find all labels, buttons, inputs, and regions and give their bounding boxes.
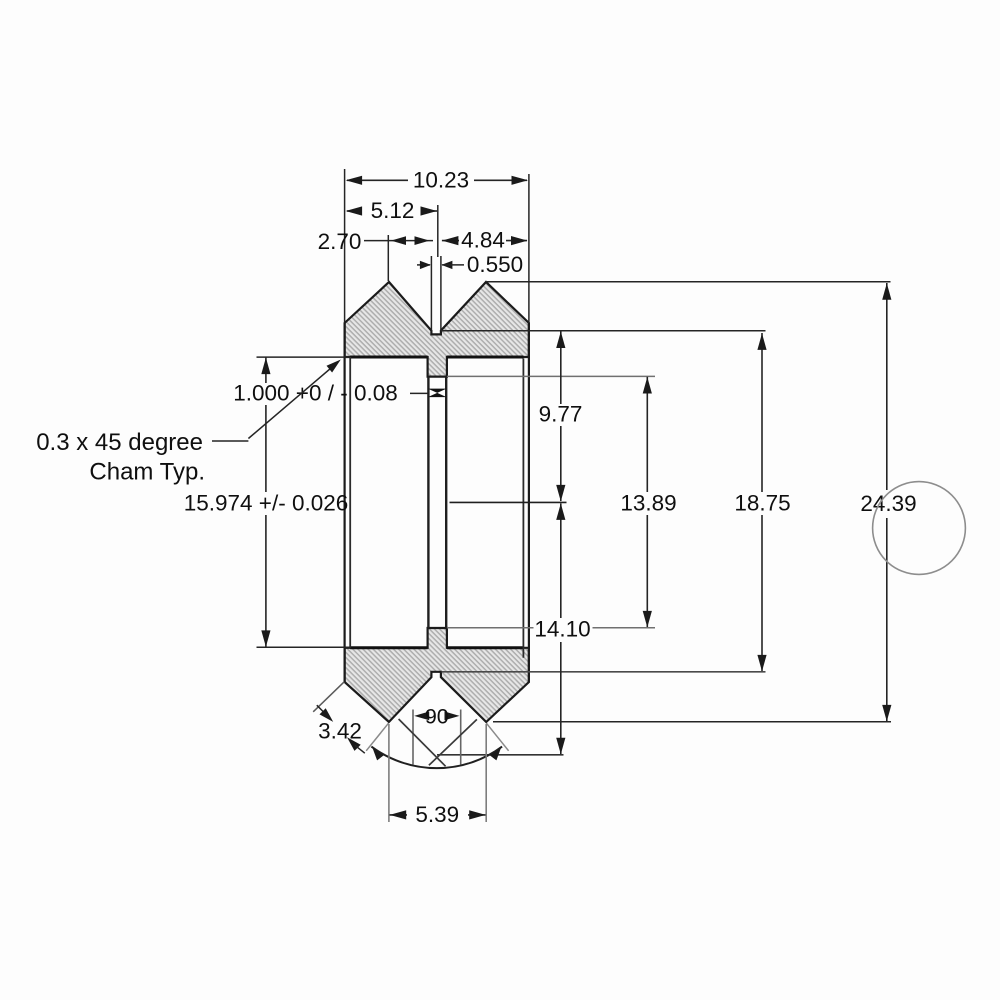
svg-text:Cham Typ.: Cham Typ. [89, 459, 205, 486]
construction line B [429, 719, 477, 765]
dim 10.23 line [346, 176, 528, 185]
svg-text:0.550: 0.550 [467, 252, 523, 277]
svg-text:10.23: 10.23 [413, 167, 469, 192]
dim 5.12 line [346, 206, 437, 215]
center line [450, 501, 567, 503]
chamfer leader [212, 360, 341, 442]
chamfer note text [36, 429, 205, 486]
notch level extension line [442, 671, 766, 673]
bore bottom edge emphasis [350, 646, 523, 649]
left bore chamfer line [349, 357, 351, 648]
central slit left wall [427, 377, 429, 628]
upper body cross-section (hatched) [345, 282, 529, 377]
dim 3.42 extension line lower [366, 723, 388, 751]
slot left extension line [430, 256, 432, 331]
dim 0.08 leader [410, 392, 428, 394]
dim 24.39 line [882, 283, 891, 721]
dim 18.75 line [757, 333, 766, 671]
gap arrows (bowtie) [428, 389, 447, 398]
apex level extension line [493, 721, 891, 723]
central slit right wall [445, 377, 447, 628]
dim 0.550 arrows [417, 261, 464, 269]
dim 15.974 extension lines [257, 357, 352, 647]
svg-text:5.12: 5.12 [371, 198, 415, 223]
svg-text:9.77: 9.77 [539, 401, 583, 426]
dim 2.70 arrows [388, 236, 433, 245]
dim 14.10 line [556, 503, 565, 754]
svg-text:4.84: 4.84 [461, 228, 505, 253]
dim 4.84 line [442, 236, 528, 245]
bore top edge emphasis [350, 356, 523, 359]
left outer edge [344, 323, 346, 682]
dim 10.23 extension lines [345, 169, 529, 323]
svg-text:13.89: 13.89 [620, 491, 676, 516]
virtual apex extension line [437, 754, 564, 756]
dim 15.974 line [261, 358, 270, 647]
dim 9.77 line [556, 331, 565, 501]
left peak extension tick [387, 235, 389, 281]
right bore chamfer line [522, 359, 524, 658]
construction line A [399, 719, 446, 766]
svg-text:18.75: 18.75 [734, 491, 790, 516]
angle dimension arc [371, 747, 502, 769]
slot right extension line [440, 256, 442, 331]
dim 2.70 leader [364, 240, 388, 242]
dim 13.89 line [643, 377, 652, 628]
svg-text:0.3 x 45 degree: 0.3 x 45 degree [36, 429, 203, 456]
dim 90 extension lines [413, 710, 461, 765]
svg-text:5.39: 5.39 [415, 802, 459, 827]
dim 3.42 line with arrows [317, 705, 365, 753]
valley level extension line [441, 330, 766, 332]
svg-text:14.10: 14.10 [534, 616, 590, 641]
svg-text:15.974 +/- 0.026: 15.974 +/- 0.026 [184, 491, 349, 516]
svg-text:90: 90 [425, 705, 449, 729]
svg-text:3.42: 3.42 [318, 719, 362, 744]
svg-text:24.39: 24.39 [860, 491, 916, 516]
dim 90 arrows [414, 712, 459, 721]
bore top extension line (gray) [447, 375, 655, 377]
right groove wall extension [486, 723, 508, 751]
reference circle [873, 482, 966, 575]
svg-text:2.70: 2.70 [318, 229, 362, 254]
peak level extension line [487, 281, 891, 283]
right outer edge [528, 323, 530, 682]
dim 5.39 extension lines [389, 724, 486, 822]
bore bottom extension line (gray) [447, 627, 655, 629]
dim 5.39 line [390, 810, 486, 819]
dim 5.12 extension line [437, 205, 439, 257]
dim 3.42 extension line upper [313, 682, 344, 712]
svg-text:1.000 +0 / - 0.08: 1.000 +0 / - 0.08 [233, 381, 398, 406]
lower body cross-section (hatched) [345, 628, 529, 722]
